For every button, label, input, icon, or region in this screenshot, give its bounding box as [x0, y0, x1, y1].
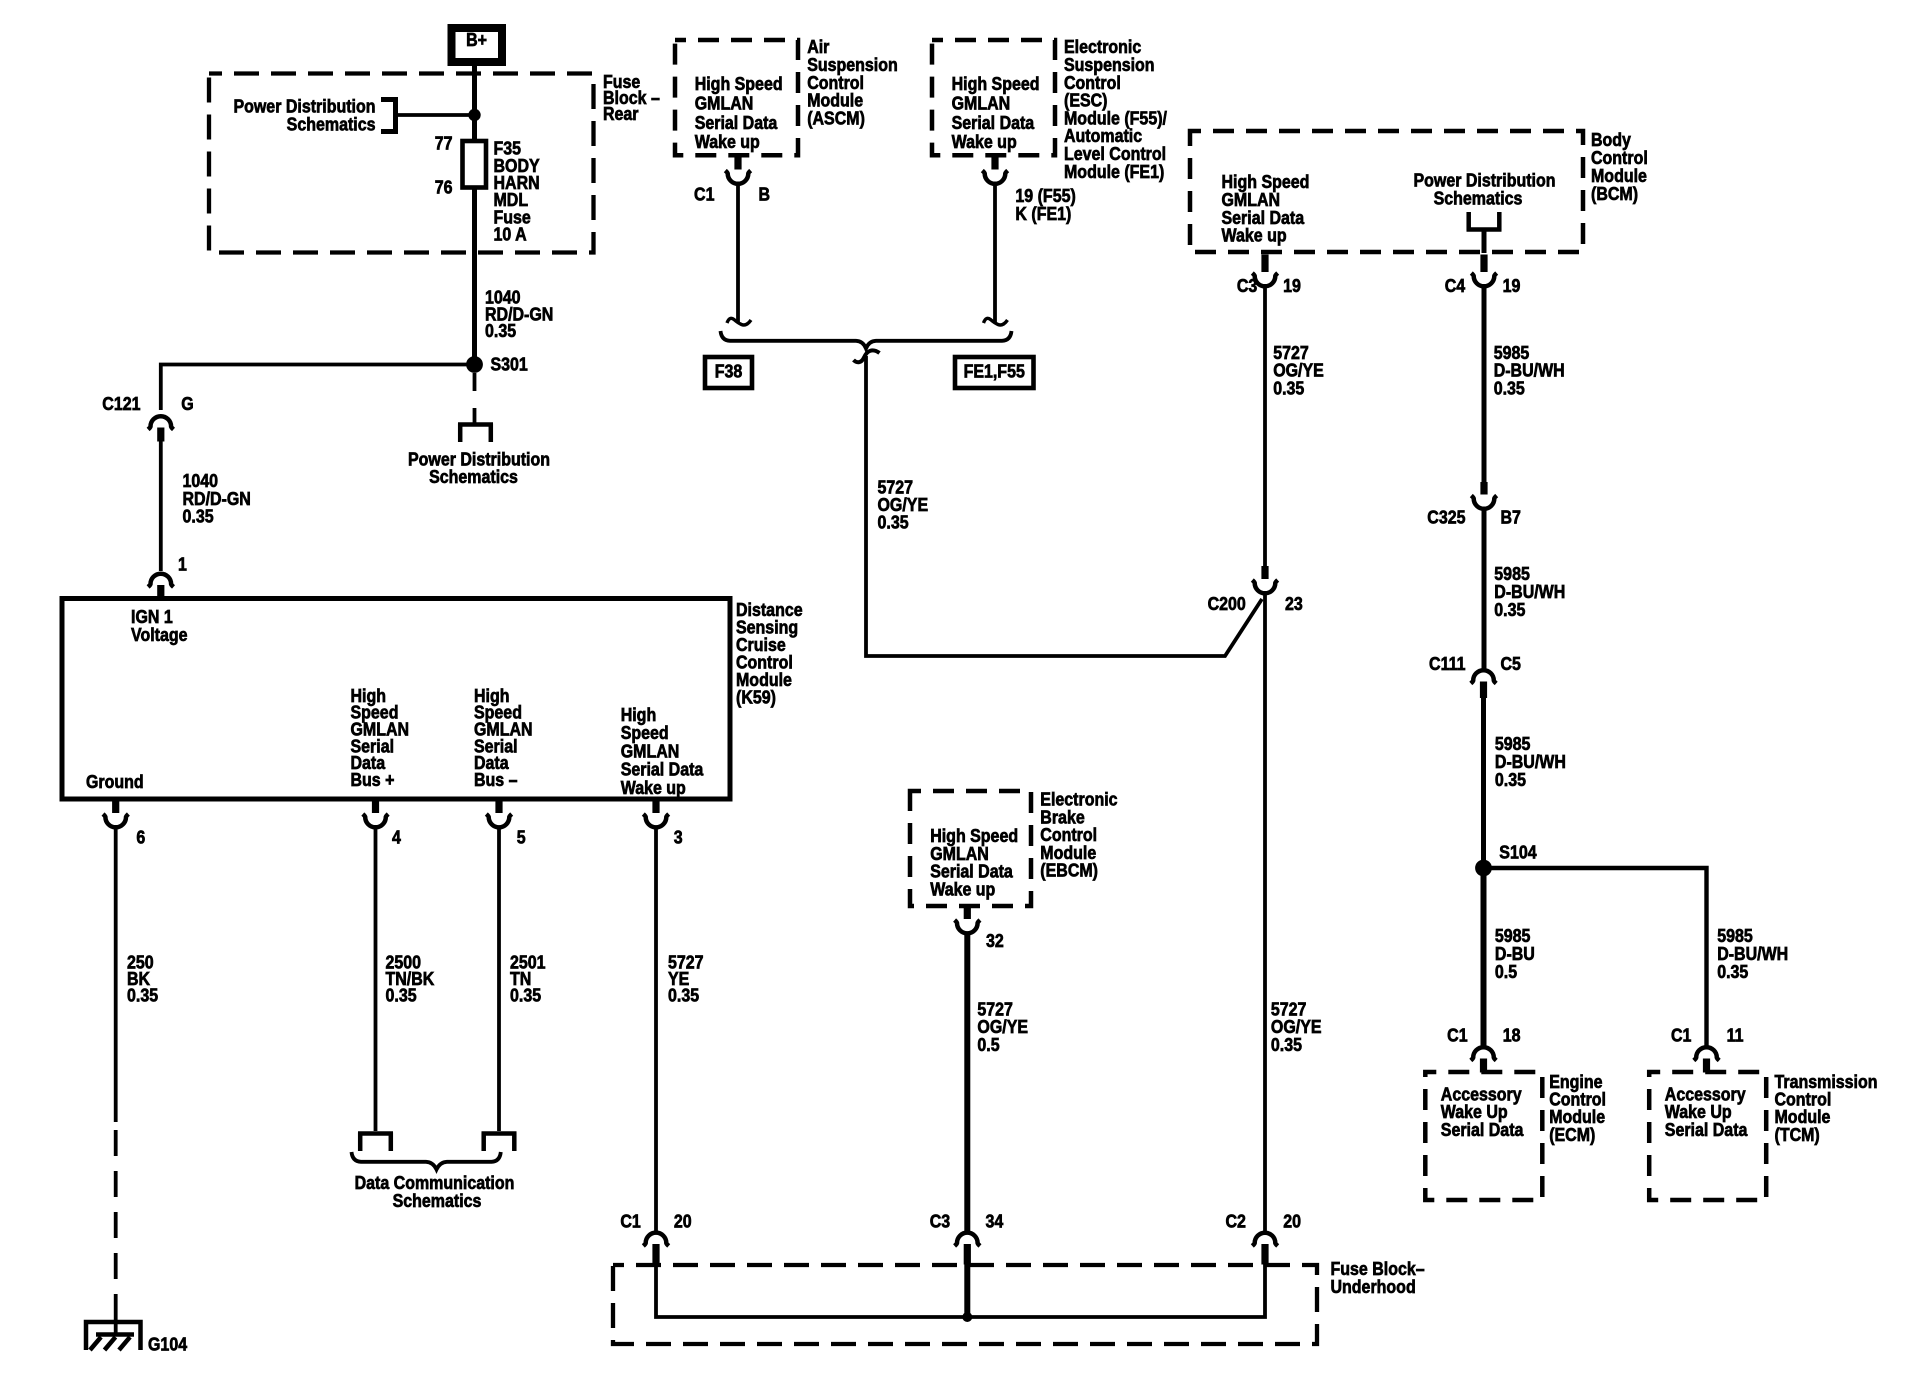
svg-text:C1: C1	[694, 185, 714, 205]
svg-text:Speed: Speed	[621, 723, 669, 743]
module BCM dashed box	[1190, 131, 1583, 252]
svg-text:C1: C1	[1671, 1026, 1691, 1046]
module ECM dashed box	[1425, 1072, 1542, 1200]
svg-text:C121: C121	[102, 394, 140, 414]
svg-text:Serial Data: Serial Data	[1665, 1120, 1748, 1140]
connector BCM C4 pin 19	[1445, 255, 1521, 297]
connector K59 pin 5	[486, 801, 525, 848]
module ASCM dashed box	[675, 40, 798, 155]
svg-text:FE1,F55: FE1,F55	[964, 362, 1025, 382]
svg-text:Wake up: Wake up	[1222, 226, 1287, 246]
svg-text:3: 3	[674, 828, 683, 848]
svg-text:10 A: 10 A	[494, 225, 527, 245]
wire C200 to fuse block C2	[1263, 595, 1267, 1233]
svg-text:C200: C200	[1208, 594, 1246, 614]
svg-text:S104: S104	[1499, 843, 1537, 863]
svg-text:G104: G104	[148, 1335, 188, 1355]
wire EBCM to fuse block C3	[964, 935, 970, 1234]
svg-text:19: 19	[1283, 276, 1301, 296]
internal bus wire joining C1, C3, C2	[656, 1264, 1265, 1317]
splice S104	[1475, 843, 1537, 877]
svg-text:0.35: 0.35	[668, 986, 699, 1006]
connector C325 pin B7	[1427, 482, 1521, 528]
svg-text:C2: C2	[1225, 1212, 1245, 1232]
svg-text:0.35: 0.35	[1273, 379, 1304, 399]
wire label 1040 RD/D-GN 0.35 (upper)	[485, 288, 553, 341]
svg-text:0.5: 0.5	[977, 1035, 999, 1055]
fuse block - rear dashed box	[209, 72, 660, 252]
svg-text:0.35: 0.35	[878, 513, 909, 533]
svg-text:19: 19	[1503, 276, 1521, 296]
module ASCM descriptor label	[807, 37, 898, 128]
svg-text:(EBCM): (EBCM)	[1040, 861, 1098, 881]
connector BCM C3 pin 19	[1237, 255, 1301, 297]
svg-text:0.35: 0.35	[127, 986, 158, 1006]
svg-text:C4: C4	[1445, 276, 1466, 296]
svg-text:4: 4	[392, 828, 401, 848]
svg-text:Voltage: Voltage	[131, 625, 188, 645]
svg-text:(K59): (K59)	[736, 688, 776, 708]
connector K59 pin 1	[148, 555, 187, 600]
module K59 Distance Sensing Cruise Control	[62, 599, 730, 800]
svg-text:Bus +: Bus +	[351, 770, 395, 790]
svg-text:11: 11	[1727, 1026, 1744, 1046]
wire C121 to K59 pin 1	[159, 441, 163, 571]
svg-text:C1: C1	[1447, 1026, 1467, 1046]
wire ASCM wake-up to splice	[727, 185, 751, 325]
power distribution schematics reference (below S301)	[408, 373, 550, 487]
connector K59 pin 3	[643, 801, 682, 848]
svg-text:Wake up: Wake up	[695, 132, 760, 152]
wire label 2500 TN/BK 0.35	[386, 953, 435, 1006]
data communication reference (bus-)	[482, 1133, 517, 1152]
module ESC/ALC dashed box	[932, 40, 1055, 155]
wire label 2501 TN 0.35	[510, 953, 546, 1006]
wire ground 250 BK	[114, 828, 118, 1325]
svg-text:(TCM): (TCM)	[1775, 1125, 1820, 1145]
ground G104	[86, 1322, 188, 1355]
wire S104 to TCM C1	[1484, 868, 1707, 1046]
svg-text:B+: B+	[466, 30, 487, 50]
svg-text:(ASCM): (ASCM)	[807, 109, 865, 129]
wire B+ feed down to S301	[472, 66, 477, 360]
svg-text:0.35: 0.35	[1271, 1035, 1302, 1055]
svg-text:34: 34	[986, 1212, 1004, 1232]
data communication schematics brace and label	[352, 1152, 515, 1211]
svg-text:0.35: 0.35	[510, 986, 541, 1006]
wire BCM C4 to C325	[1482, 288, 1487, 483]
module EBCM descriptor label	[1040, 790, 1117, 881]
wire label 5985 D-BU 0.5	[1495, 926, 1535, 982]
svg-text:(BCM): (BCM)	[1591, 184, 1638, 204]
svg-text:Bus –: Bus –	[474, 770, 518, 790]
svg-text:F38: F38	[715, 362, 743, 382]
module BCM descriptor label	[1591, 130, 1648, 204]
connector K59 pin 4	[363, 801, 402, 848]
connector TCM C1 pin 11	[1671, 1026, 1744, 1073]
connector fuse block C3 pin 34	[930, 1212, 1004, 1265]
svg-text:0.35: 0.35	[386, 986, 417, 1006]
connector fuse block C1 pin 20	[620, 1212, 691, 1265]
power distribution schematics reference (BCM)	[1413, 171, 1555, 253]
svg-text:C1: C1	[620, 1212, 640, 1232]
svg-text:6: 6	[136, 828, 145, 848]
wire S104 to ECM C1	[1481, 868, 1487, 1047]
fuse block underhood dashed box	[613, 1259, 1425, 1344]
junction node on B+ feed	[468, 109, 480, 121]
wire splice to C200	[866, 356, 1262, 656]
wire C325 to C111	[1482, 511, 1487, 670]
svg-text:Wake up: Wake up	[930, 879, 995, 899]
wire label 5985 D-BU/WH 0.35 (lower)	[1495, 734, 1566, 790]
svg-text:GMLAN: GMLAN	[621, 742, 680, 762]
fuse reference box FE1,F55	[955, 357, 1034, 388]
svg-text:1: 1	[178, 555, 187, 575]
wire label 5727 OG/YE 0.35 (BCM)	[1273, 343, 1324, 399]
svg-text:0.35: 0.35	[485, 321, 516, 341]
junction node on internal bus	[962, 1312, 972, 1322]
wire bus+ 2500 TN/BK	[374, 828, 378, 1131]
wire ESC wake-up to splice	[984, 185, 1008, 325]
data communication reference (bus+)	[358, 1133, 393, 1152]
svg-text:32: 32	[986, 931, 1004, 951]
svg-text:19 (F55): 19 (F55)	[1015, 186, 1075, 206]
fuse reference box F38	[705, 357, 752, 388]
svg-text:GMLAN: GMLAN	[952, 94, 1011, 114]
svg-text:20: 20	[674, 1212, 692, 1232]
svg-text:Wake up: Wake up	[952, 132, 1017, 152]
wire S301 to C121	[161, 365, 475, 411]
connector C200 pin 23	[1208, 566, 1303, 614]
splice brace joining ASCM and ESC wires	[721, 331, 1012, 362]
connector C111 pin C5	[1429, 654, 1521, 698]
svg-text:18: 18	[1503, 1026, 1521, 1046]
connector ASCM C1 pin B	[694, 157, 770, 205]
power symbol B+	[452, 28, 503, 62]
wire wake-up 5727 YE	[654, 828, 658, 1234]
svg-text:Module (FE1): Module (FE1)	[1064, 162, 1164, 182]
svg-text:GMLAN: GMLAN	[695, 94, 754, 114]
svg-text:76: 76	[435, 178, 453, 198]
svg-text:5: 5	[517, 828, 526, 848]
svg-text:0.35: 0.35	[1494, 600, 1525, 620]
svg-text:C111: C111	[1429, 654, 1465, 674]
svg-text:High Speed: High Speed	[695, 74, 783, 94]
wire BCM C3 to C200	[1263, 288, 1267, 567]
svg-text:C5: C5	[1501, 654, 1521, 674]
connector ESC pin 19(F55)/K(FE1)	[982, 157, 1075, 224]
svg-text:Ground: Ground	[86, 772, 144, 792]
wire C111 to S104	[1481, 698, 1486, 868]
wire label 250 BK 0.35	[127, 953, 158, 1006]
connector fuse block C2 pin 20	[1225, 1212, 1301, 1265]
svg-text:0.35: 0.35	[1495, 770, 1526, 790]
svg-text:0.5: 0.5	[1495, 962, 1517, 982]
svg-text:Schematics: Schematics	[1434, 188, 1523, 208]
svg-text:G: G	[181, 394, 193, 414]
wire label 5727 YE 0.35	[668, 953, 704, 1006]
svg-text:Schematics: Schematics	[287, 114, 376, 134]
connector ECM C1 pin 18	[1447, 1026, 1520, 1073]
splice S301	[466, 355, 528, 375]
svg-text:B: B	[759, 185, 771, 205]
svg-text:Serial Data: Serial Data	[621, 760, 704, 780]
connector K59 pin 6	[103, 801, 145, 848]
svg-text:23: 23	[1285, 594, 1303, 614]
svg-text:C325: C325	[1427, 508, 1465, 528]
svg-text:0.35: 0.35	[1717, 962, 1748, 982]
svg-text:Underhood: Underhood	[1331, 1277, 1416, 1297]
svg-text:S301: S301	[491, 355, 528, 375]
svg-text:High: High	[621, 705, 657, 725]
wire label 5727 OG/YE 0.35 (to C2)	[1271, 999, 1322, 1055]
fuse F35 BODY HARN MDL 10A	[435, 134, 541, 245]
svg-text:C3: C3	[930, 1212, 950, 1232]
wire bus- 2501 TN	[497, 828, 501, 1131]
svg-text:0.35: 0.35	[1494, 379, 1525, 399]
wire label 5985 D-BU/WH 0.35 (TCM)	[1717, 926, 1788, 982]
svg-text:Schematics: Schematics	[429, 467, 518, 487]
module TCM dashed box	[1649, 1072, 1766, 1200]
wire label 5985 D-BU/WH 0.35 (mid)	[1494, 564, 1565, 620]
svg-text:Serial Data: Serial Data	[1441, 1120, 1524, 1140]
svg-text:(ECM): (ECM)	[1549, 1125, 1595, 1145]
module ECM descriptor label	[1549, 1072, 1606, 1145]
wire label 5727 OG/YE 0.35 (splice branch)	[878, 478, 929, 533]
module ESC descriptor label	[1064, 37, 1167, 182]
svg-text:Serial Data: Serial Data	[952, 113, 1035, 133]
svg-text:77: 77	[435, 134, 453, 154]
module EBCM dashed box	[910, 791, 1031, 906]
svg-text:K (FE1): K (FE1)	[1015, 204, 1071, 224]
wire label 5727 OG/YE 0.5	[977, 999, 1028, 1055]
module TCM descriptor label	[1775, 1072, 1878, 1145]
svg-text:High Speed: High Speed	[952, 74, 1040, 94]
svg-text:20: 20	[1283, 1212, 1301, 1232]
svg-text:Rear: Rear	[603, 104, 639, 124]
svg-text:B7: B7	[1501, 508, 1521, 528]
module K59 descriptor label	[736, 600, 803, 708]
connector C121 pin G	[102, 394, 193, 441]
svg-text:0.35: 0.35	[183, 507, 214, 527]
svg-text:C3: C3	[1237, 276, 1257, 296]
wire label 5985 D-BU/WH 0.35 (BCM)	[1494, 343, 1565, 399]
svg-text:Serial Data: Serial Data	[695, 113, 778, 133]
power distribution schematics reference (rear fuse block)	[233, 97, 472, 135]
svg-text:Schematics: Schematics	[393, 1191, 482, 1211]
wire label 1040 RD/D-GN 0.35 (lower)	[183, 471, 251, 526]
svg-text:Wake up: Wake up	[621, 778, 686, 798]
connector EBCM pin 32	[955, 908, 1004, 952]
